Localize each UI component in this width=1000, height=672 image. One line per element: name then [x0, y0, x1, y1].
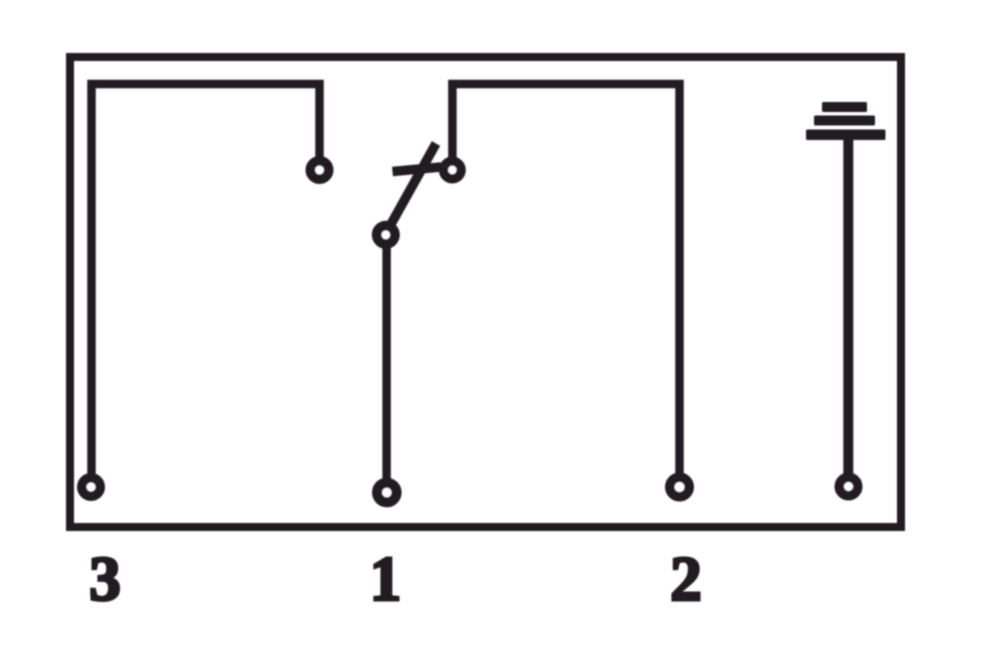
svg-text:3: 3 — [89, 544, 121, 614]
svg-text:2: 2 — [670, 544, 702, 614]
svg-text:1: 1 — [370, 544, 402, 614]
